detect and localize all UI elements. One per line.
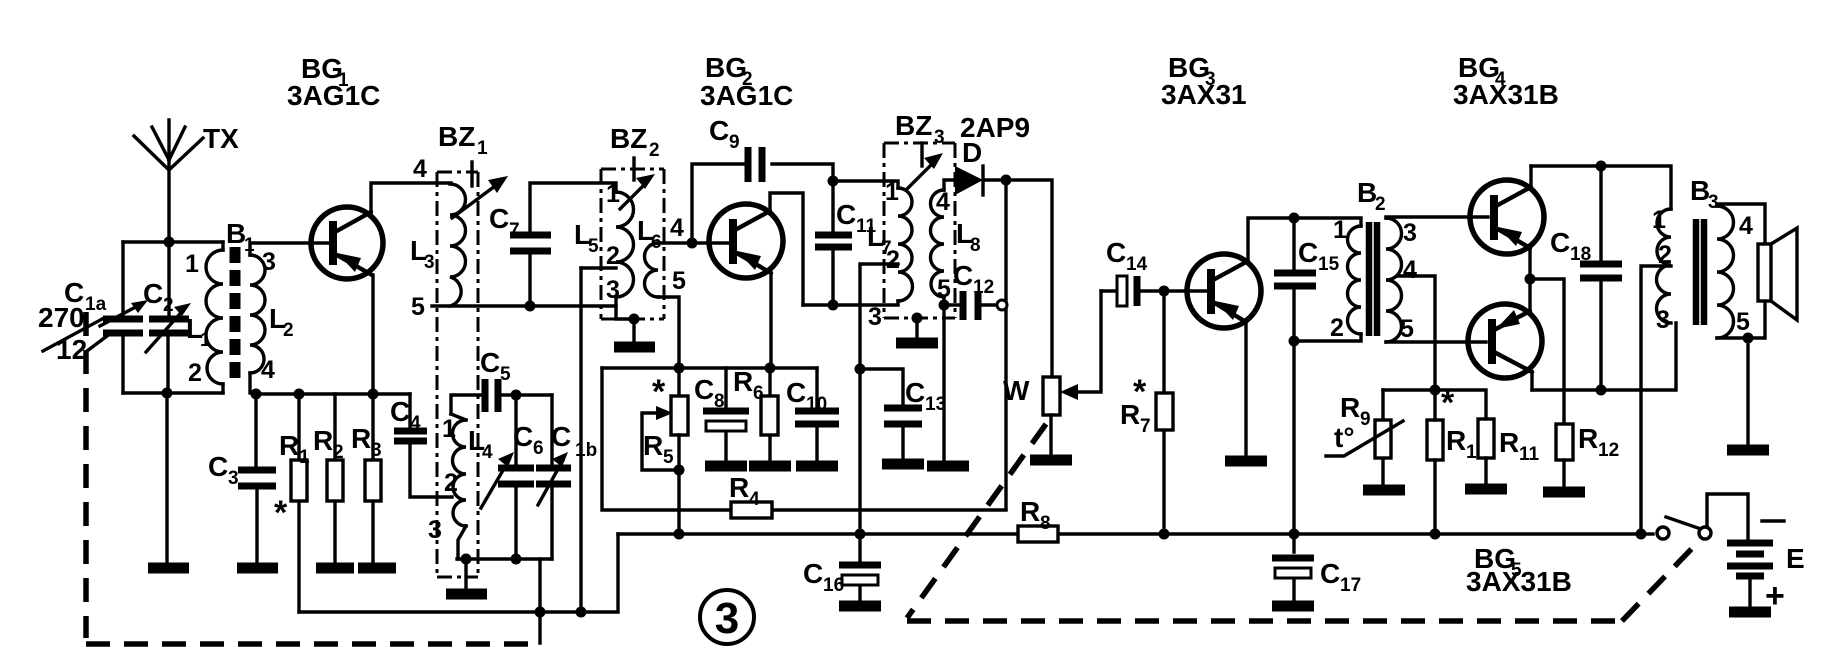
wire BG2 emitter [769,273,772,368]
node C18 bottom [1596,385,1607,396]
svg-text:R: R [1499,427,1519,458]
resistor R7 [1120,291,1173,534]
svg-text:*: * [652,373,666,411]
transformer B2 primary [1330,216,1361,342]
svg-text:8: 8 [970,235,981,256]
wire tank to ground [165,393,168,562]
wire L7 pin2 tap [860,264,898,534]
svg-text:C: C [953,260,973,291]
transformer B2 secondary [1386,218,1417,343]
wire BG4 collector to top rail [1529,166,1532,187]
node C15 bottom / B2 pin2 [1289,336,1300,347]
coil L5 [574,180,634,304]
svg-text:4: 4 [670,214,684,242]
svg-text:C: C [143,278,163,309]
svg-text:3: 3 [868,303,882,331]
svg-text:6: 6 [753,383,764,404]
svg-text:1b: 1b [575,440,597,461]
wire speaker ground [1746,338,1749,444]
node C15/bus [1289,529,1300,540]
svg-text:1: 1 [1333,216,1347,244]
ground C17 [1272,601,1314,612]
transformer B1 secondary winding L2 [250,248,294,384]
capacitor C12 [944,260,998,320]
wire L5 pin2 tap [581,266,616,269]
svg-text:4: 4 [413,155,427,183]
svg-text:9: 9 [729,132,740,153]
wire BG5 collector to bottom rail [1530,372,1533,390]
svg-text:5: 5 [411,293,425,321]
resistor R4 [602,368,1006,518]
svg-text:1: 1 [442,415,456,443]
node tank bottom [162,388,173,399]
node R5 bottom [674,465,685,476]
svg-text:C: C [390,396,410,427]
svg-text:C: C [803,558,823,589]
svg-text:2: 2 [606,242,620,270]
svg-text:3AG1C: 3AG1C [700,80,793,111]
resistor R9 (thermistor) [1326,390,1403,484]
svg-text:3AX31B: 3AX31B [1466,566,1572,597]
wire emitter bias rail [602,366,817,369]
wire emitters to R12 [1530,279,1564,424]
svg-text:7: 7 [1140,416,1151,437]
diode D 2AP9 [944,137,1006,195]
ground C10 [796,461,838,472]
svg-text:3: 3 [606,276,620,304]
capacitor C11 [815,181,877,305]
resistor R8 [1018,496,1058,542]
svg-text:13: 13 [925,394,946,415]
node L5pin2/AGC [576,607,587,618]
svg-text:4: 4 [936,188,950,216]
ground BZ3 [896,338,938,349]
node R1 top [294,389,305,400]
transistor BG4 [1470,180,1544,254]
capacitor C6 (gang trimmer) [481,395,544,559]
svg-text:8: 8 [1040,513,1051,534]
BZ1 tuning arrow [452,176,508,218]
svg-text:R: R [1578,423,1598,454]
wire ground stub L4 [464,559,467,588]
capacitor C4 [390,394,452,497]
wire R5 to bus [677,470,680,534]
svg-text:17: 17 [1340,575,1361,596]
BZ2 tuning core tick [632,158,635,180]
capacitor C1a (variable 270/12) [38,242,148,393]
node L2-C3 [251,389,262,400]
wire BZ3 tank bottom [803,301,898,305]
svg-text:2: 2 [1330,314,1344,342]
svg-text:5: 5 [1400,315,1414,343]
wire detector to volume [1006,180,1052,377]
node detector output [1001,175,1012,186]
svg-text:*: * [274,494,288,532]
capacitor C18 [1550,166,1622,390]
mechanical link W-switch [907,424,1702,621]
ground oscillator [446,589,487,600]
node C5-C6 [511,390,522,401]
wire L3 pin5 line to BZ2 [432,304,616,307]
wire BG2 collector [770,193,803,305]
svg-text:3: 3 [1656,306,1670,334]
svg-text:3: 3 [424,252,435,273]
wire BG4 emitter down [1528,248,1531,314]
ground C8 [705,461,747,472]
svg-text:W: W [1003,375,1030,406]
node R5 rail [674,363,685,374]
coil L8 [931,188,981,303]
svg-text:3AG1C: 3AG1C [287,80,380,111]
wire top rail (B3 pin1) [1531,166,1671,209]
svg-text:1: 1 [299,447,310,468]
BZ3 tuning core tick [920,143,923,166]
svg-text:3: 3 [1403,219,1417,247]
capacitor C9 [692,115,833,243]
ground R11 [1465,484,1507,495]
svg-text:10: 10 [806,394,827,415]
node L7 tap / C13 [855,364,866,375]
wire BG3 emitter to ground [1244,322,1247,455]
svg-text:2: 2 [333,442,344,463]
svg-text:4: 4 [261,356,275,384]
switch K (on volume control) [1641,494,1748,539]
svg-text:2: 2 [163,295,174,316]
node emitter/R6 [765,363,776,374]
transistor BG5 [1468,304,1542,378]
node speaker ground [1743,333,1754,344]
svg-text:12: 12 [1598,440,1619,461]
svg-text:2: 2 [444,469,458,497]
svg-text:1: 1 [477,138,488,159]
ground BG3 [1225,456,1267,467]
svg-text:2: 2 [1375,194,1386,215]
svg-text:BZ: BZ [610,123,647,154]
svg-text:R: R [279,430,299,461]
svg-text:11: 11 [1519,444,1540,465]
resistor R10 [1427,384,1487,534]
wire BG1 collector to BZ1 pin4 [371,183,451,212]
svg-text:2: 2 [188,359,202,387]
svg-text:12: 12 [973,277,994,298]
resistor R3 [351,394,382,562]
ground R12 [1543,487,1585,498]
wire tank top rail [123,240,223,243]
svg-text:5: 5 [663,447,674,468]
node R7/bus [1159,529,1170,540]
svg-text:R: R [1020,496,1040,527]
svg-text:3AX31: 3AX31 [1161,79,1247,110]
capacitor C5 [451,347,552,414]
ground C13 [882,459,924,470]
capacitor C15 [1274,218,1340,341]
svg-text:C: C [513,421,533,452]
node C15 top [1289,213,1300,224]
svg-text:C: C [905,377,925,408]
svg-text:4: 4 [1403,256,1417,284]
svg-text:t°: t° [1334,422,1355,453]
wire AGC feedback vertical [1004,180,1007,509]
IF-transformer BZ2 shield box [601,123,664,319]
svg-text:270: 270 [38,302,85,333]
svg-text:3: 3 [228,468,239,489]
node C6 bottom [511,554,522,565]
transistor BG3 [1187,254,1261,328]
wire B3 pin2 down to switch [1641,266,1671,534]
transformer B3 core [1696,219,1704,325]
capacitor C17 (electrolytic) [1272,534,1361,600]
svg-text:4: 4 [1739,212,1753,240]
resistor R11 [1478,419,1540,483]
svg-text:R: R [1120,399,1140,430]
node BZ2 ground [629,314,640,325]
svg-text:4: 4 [410,413,421,434]
svg-text:R: R [1340,392,1360,423]
svg-text:BZ: BZ [895,110,932,141]
svg-text:C: C [836,199,856,230]
svg-text:D: D [962,137,982,168]
transistor BG2 [709,204,783,278]
svg-text:2: 2 [649,140,660,161]
svg-text:C: C [551,421,571,452]
capacitor C3 [208,394,276,562]
node base/C9 [687,238,698,249]
svg-text:18: 18 [1570,244,1591,265]
svg-text:8: 8 [714,391,725,412]
wire B2 pin3 to BG4 base [1386,217,1488,218]
node L4 ground stub [461,554,472,565]
BZ2 tuning arrow [620,174,655,209]
wire supply bus left [618,532,1641,535]
wire AGC line bottom [299,534,618,612]
svg-text:3: 3 [934,127,945,148]
wire bias rail R9/R10/R11 [1383,390,1486,419]
wire L2 pin3 to BG1 base [250,243,328,255]
svg-text:3: 3 [428,516,442,544]
node BZ3 ground [912,313,923,324]
svg-text:2: 2 [283,320,294,341]
svg-text:1: 1 [606,180,620,208]
capacitor C7 [489,183,616,306]
wire oscillator bottom rail [457,557,552,560]
svg-text:TX: TX [203,123,239,154]
node C7 bottom [525,301,536,312]
wire L6 pin4 to BG2 base node [658,241,728,244]
svg-text:R: R [643,430,663,461]
mechanical gang link C1a-C1b [86,312,540,644]
svg-text:C: C [1298,237,1318,268]
ground battery [1729,607,1771,618]
svg-text:C: C [208,451,228,482]
coil L6 [637,214,686,297]
ground R6 [749,461,791,472]
svg-text:7: 7 [509,220,520,241]
wire BG1 emitter down [371,275,374,394]
capacitor C8 (electrolytic) [694,368,749,460]
wire bottom rail (B3 pin3) [1532,323,1676,390]
transistor BG1 [311,207,383,279]
coil L7 [867,178,913,331]
svg-text:6: 6 [533,438,544,459]
transformer B3 secondary [1717,206,1753,338]
battery E [1727,521,1805,615]
svg-text:5: 5 [588,236,599,257]
svg-text:3: 3 [371,440,382,461]
node center tap bias [1430,385,1441,396]
ground W [1030,455,1072,466]
wire B2 pin4 center tap [1398,276,1435,390]
svg-text:5: 5 [500,364,511,385]
wire L5 pin2 down to AGC [579,268,582,612]
resistor R1 [274,394,310,612]
wire B2 pin5 to BG5 base [1386,340,1486,343]
svg-text:15: 15 [1318,254,1340,275]
node R5/bus [674,529,685,540]
capacitor C2 (trimmer) [143,242,191,393]
node C18 top [1596,161,1607,172]
wire tank bottom rail [123,391,223,394]
svg-text:4: 4 [482,442,493,463]
IF-transformer BZ3 shield box [884,110,955,318]
wire L6 pin5 to R5 [658,297,679,396]
ground speaker [1727,445,1769,456]
svg-text:3: 3 [262,248,276,276]
BZ1 tuning core tick [470,162,473,186]
capacitor C13 [860,369,946,458]
node antenna/tank top [164,237,175,248]
svg-text:C: C [694,374,714,405]
transformer B1 core (ferrite rod) [230,247,241,384]
svg-text:*: * [1441,384,1455,422]
ground R2 [316,563,354,574]
figure number 3 [700,590,754,644]
wire BG3 collector to C15/B2 [1248,218,1361,261]
wire L5 pin3 to ground node [616,297,634,319]
svg-text:R: R [733,366,753,397]
resistor R12 [1556,423,1619,486]
wire BZ3 ground stub [915,318,918,337]
node C11 bottom [828,300,839,311]
capacitor C14 (electrolytic) [1101,237,1164,306]
svg-text:C: C [786,377,806,408]
node BG3 base [1159,286,1170,297]
svg-text:R: R [729,472,749,503]
antenna TX [134,120,239,242]
svg-text:1: 1 [1652,206,1666,234]
svg-text:C: C [1320,558,1340,589]
resistor R2 [313,394,344,562]
transformer B2 core [1369,222,1377,336]
wire bias bus [256,392,410,395]
node gang/AGC [535,607,546,618]
svg-text:9: 9 [1360,409,1371,430]
svg-text:16: 16 [823,575,844,596]
IF-transformer BZ1 shield box [437,121,488,577]
ground L8/C12 [927,461,969,472]
capacitor C10 [786,368,839,460]
wire C15 bottom to B2 pin2 and bus [1294,334,1361,534]
svg-text:4: 4 [749,489,760,510]
svg-text:5: 5 [672,267,686,295]
ground C16 [839,601,881,612]
node C9/C11 top [828,176,839,187]
svg-text:R: R [351,423,371,454]
wire L8 pin5 down to ground [942,297,945,460]
node emitters [1525,274,1536,285]
BZ3 tuning arrow [906,153,943,190]
svg-text:3AX31B: 3AX31B [1453,79,1559,110]
svg-text:C: C [1550,227,1570,258]
coil L4 (oscillator) [428,414,493,559]
svg-text:R: R [313,425,333,456]
svg-text:1: 1 [185,250,199,278]
svg-text:2: 2 [886,246,900,274]
svg-text:BG: BG [705,52,747,83]
node C12 right (connector) [997,300,1007,310]
coil L3 [410,184,466,306]
node B3 pin2/bus [1636,529,1647,540]
resistor R6 [733,366,778,460]
svg-text:C: C [709,115,729,146]
transformer B3 primary [1652,206,1672,334]
svg-text:12: 12 [56,334,87,365]
speaker [1758,228,1797,320]
transformer B1 primary winding [185,242,223,393]
wire B3 secondary to speaker [1717,204,1765,338]
ground R3 [358,563,396,574]
svg-text:R: R [1446,425,1466,456]
wire BZ3 tank top [833,181,898,188]
ground R9 [1363,485,1405,496]
wire L2 pin4 down [250,373,256,394]
capacitor C1b (tuning gang section) [536,395,597,559]
resistor R5 (preset) [642,373,688,470]
wire C1b rotor to gang link [538,559,541,643]
capacitor C16 (electrolytic) [803,534,881,600]
svg-text:3: 3 [715,594,739,643]
svg-text:1: 1 [885,178,899,206]
svg-text:1a: 1a [85,294,107,315]
svg-text:5: 5 [1736,308,1750,336]
ground C3 [237,563,278,574]
svg-text:C: C [489,203,509,234]
svg-text:C: C [480,347,500,378]
node L8 pin5 [939,300,950,311]
wire R7 node to BG3 base [1164,289,1206,292]
node R10/bus [1430,529,1441,540]
svg-text:BZ: BZ [438,121,475,152]
potentiometer W (volume) [1003,291,1101,454]
svg-text:E: E [1786,543,1805,574]
ground tank [148,563,189,574]
svg-text:C: C [1106,237,1126,268]
node C16/bus [855,529,866,540]
ground BZ2 [614,342,655,353]
wire BZ2 ground stub [632,319,635,341]
node emitter bus [368,389,379,400]
svg-text:14: 14 [1126,254,1148,275]
